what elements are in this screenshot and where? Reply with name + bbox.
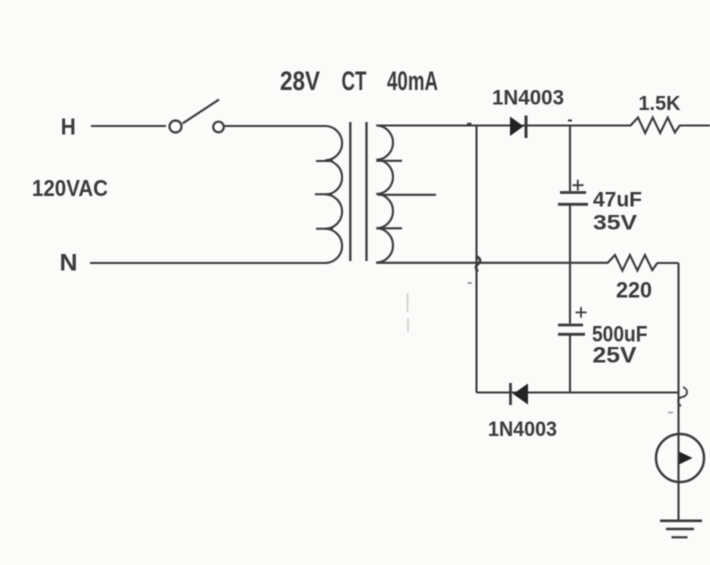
capacitor C1 top plate	[560, 191, 586, 194]
switch S1 lever	[183, 100, 220, 124]
svg-text:1.5K: 1.5K	[639, 92, 681, 115]
wire secondary top rail	[377, 124, 710, 126]
capacitor C2 plus sign	[576, 307, 587, 318]
secondary center tap stub	[378, 194, 436, 196]
LED DS1 arrow	[680, 452, 693, 464]
wire mid rail	[376, 262, 678, 264]
transformer T1 core	[350, 122, 366, 261]
diode D1 1N4003	[510, 117, 524, 137]
resistor R1 1.5K	[631, 118, 680, 134]
capacitor C2 bottom plate	[558, 333, 585, 336]
svg-text:CT: CT	[342, 66, 367, 96]
capacitor C1 plus sign	[573, 180, 584, 191]
svg-text:1N4003: 1N4003	[492, 87, 564, 110]
wire N to transformer primary bottom	[90, 262, 325, 264]
diode D1 cathode bar	[525, 116, 528, 139]
wire C1 to C2 (crosses mid rail)	[569, 206, 571, 324]
svg-text:28V: 28V	[280, 66, 320, 96]
svg-text:N: N	[60, 250, 78, 277]
scan smudge	[407, 293, 410, 332]
diode D2 cathode bar	[509, 383, 512, 405]
capacitor C1 bottom plate	[558, 203, 588, 206]
svg-text:40mA: 40mA	[387, 66, 438, 96]
svg-text:35V: 35V	[593, 211, 638, 235]
wire H to switch	[91, 125, 166, 127]
resistor R2 220	[608, 255, 658, 271]
svg-text:220: 220	[616, 278, 652, 303]
junction tick C	[568, 120, 572, 122]
primary winding cusp ticks	[315, 161, 333, 229]
svg-text:1N4003: 1N4003	[488, 418, 557, 441]
svg-text:H: H	[61, 114, 76, 140]
wire C2 to bottom rail	[569, 336, 571, 393]
wire switch to transformer primary top	[225, 125, 326, 127]
faint tick near squiggle	[668, 412, 673, 414]
corner squiggle at bottom junction	[678, 387, 687, 406]
wire top rail to C1	[569, 126, 571, 192]
secondary tap tick lower	[377, 227, 403, 229]
LED DS1 body	[656, 434, 704, 482]
transformer T1 primary winding	[325, 126, 342, 263]
svg-text:47uF: 47uF	[593, 189, 642, 212]
svg-text:25V: 25V	[593, 343, 637, 368]
switch S1 throw circle	[213, 122, 224, 133]
transformer T1 secondary winding	[376, 126, 393, 263]
wire right rail down	[677, 263, 679, 520]
capacitor C2 top plate	[558, 324, 583, 327]
ground symbol	[660, 519, 702, 522]
switch S1 pole circle	[170, 121, 182, 133]
junction tick B	[468, 282, 473, 284]
svg-text:120VAC: 120VAC	[32, 175, 108, 201]
diode D2 1N4003	[513, 384, 528, 405]
junction blob at crossing	[476, 257, 480, 272]
wire bottom rail	[477, 391, 679, 393]
junction tick A	[467, 123, 472, 125]
wire junction vertical (xfmr top to bottom diode)	[475, 126, 477, 393]
secondary tap tick upper	[377, 160, 403, 162]
